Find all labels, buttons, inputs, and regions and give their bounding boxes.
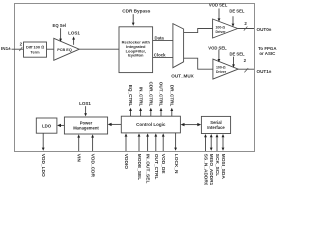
svg-text:SS_N_ADDR0: SS_N_ADDR0 bbox=[203, 154, 209, 185]
OUT_CTRL wire (pin) bbox=[154, 133, 157, 151]
VDD_CDR wire bbox=[91, 134, 94, 151]
diff term block bbox=[24, 42, 47, 57]
PCB EQ amp bbox=[54, 38, 79, 60]
svg-text:MOSI_SDA: MOSI_SDA bbox=[220, 154, 226, 180]
EQ Sel arrow bbox=[59, 28, 62, 42]
svg-text:EQ_CTRL: EQ_CTRL bbox=[128, 85, 133, 107]
svg-text:VDD_LDO: VDD_LDO bbox=[40, 154, 46, 177]
svg-text:Control Logic: Control Logic bbox=[136, 122, 166, 127]
svg-text:Clock: Clock bbox=[154, 52, 166, 57]
wire mux to driver1 bbox=[184, 58, 213, 69]
svg-text:LOS1: LOS1 bbox=[68, 31, 80, 36]
svg-text:LOS1: LOS1 bbox=[79, 101, 91, 106]
svg-text:SCK_SCL: SCK_SCL bbox=[214, 154, 220, 176]
IN_OUT_SEL wire bbox=[146, 133, 149, 151]
reclocker block bbox=[119, 27, 153, 73]
svg-text:DE SEL: DE SEL bbox=[229, 9, 245, 14]
wire eq to reclocker bbox=[79, 48, 119, 50]
driver 0 (OUT0) bbox=[213, 19, 238, 38]
svg-text:MODE_SEL: MODE_SEL bbox=[136, 154, 142, 180]
power management block bbox=[64, 117, 107, 134]
wire out1 bbox=[238, 68, 254, 70]
svg-text:OUT_CTRL: OUT_CTRL bbox=[153, 154, 159, 180]
svg-text:VDDIO: VDDIO bbox=[123, 154, 129, 169]
svg-text:VIN: VIN bbox=[76, 154, 82, 163]
svg-text:IN_OUT_SEL: IN_OUT_SEL bbox=[145, 154, 151, 184]
svg-text:LOCK_N: LOCK_N bbox=[173, 154, 179, 174]
svg-text:EQ Sel: EQ Sel bbox=[53, 23, 67, 28]
SCK_SCL wire bbox=[216, 134, 219, 151]
out mux bbox=[173, 24, 184, 68]
svg-text:Interface: Interface bbox=[207, 125, 225, 130]
svg-text:Term: Term bbox=[30, 49, 40, 54]
svg-text:OUT_CTRL: OUT_CTRL bbox=[159, 82, 164, 107]
outer border bbox=[15, 4, 255, 152]
MODE_SEL wire bbox=[138, 133, 141, 151]
svg-text:VOD_DE: VOD_DE bbox=[160, 154, 166, 175]
LOS1 arrow at eq bbox=[72, 36, 75, 44]
wire mux to driver0 bbox=[184, 29, 213, 33]
svg-text:CDR Bypass: CDR Bypass bbox=[122, 9, 151, 14]
svg-text:OUT_MUX: OUT_MUX bbox=[171, 73, 194, 78]
svg-text:VDD_CDR: VDD_CDR bbox=[90, 154, 96, 178]
VIN wire bbox=[77, 134, 80, 151]
arrow control logic to pm bbox=[108, 123, 122, 126]
LDO block bbox=[36, 118, 57, 133]
IN_CTRL arrow bbox=[139, 108, 142, 116]
svg-text:LDO: LDO bbox=[42, 123, 52, 128]
svg-text:MISO_ADDR1: MISO_ADDR1 bbox=[208, 154, 214, 185]
driver 1 (OUT1) bbox=[213, 59, 238, 79]
data wire bbox=[153, 39, 173, 41]
wire out0 bbox=[238, 28, 254, 30]
svg-text:DR_CTRL: DR_CTRL bbox=[170, 85, 175, 107]
DR_CTRL arrow bbox=[170, 108, 173, 116]
VDD_LDO wire bbox=[42, 133, 45, 151]
svg-text:Data: Data bbox=[155, 35, 165, 40]
bus slash out0 bbox=[244, 27, 248, 31]
bidir arrow control logic to serial interface bbox=[181, 123, 202, 126]
LOS1 arrow into pm bbox=[84, 106, 87, 116]
svg-text:Driver: Driver bbox=[216, 70, 227, 74]
OUT_CTRL arrow bbox=[160, 108, 163, 116]
VOD_DE wire bbox=[162, 133, 165, 151]
SS_N_ADDR0 wire bbox=[204, 134, 207, 151]
wire input bbox=[12, 48, 24, 50]
VOD SEL arrow driver0 bbox=[218, 9, 221, 22]
svg-text:IN1±: IN1± bbox=[1, 46, 11, 51]
svg-text:VOD SEL: VOD SEL bbox=[209, 3, 228, 8]
svg-text:IN_CTRL: IN_CTRL bbox=[138, 87, 143, 107]
svg-text:OUT1±: OUT1± bbox=[257, 69, 272, 74]
svg-text:100-Ω: 100-Ω bbox=[215, 25, 225, 29]
control logic block bbox=[121, 116, 180, 133]
svg-text:VOD SEL: VOD SEL bbox=[208, 46, 227, 51]
bus slash out1 bbox=[244, 68, 248, 72]
bus slash input bbox=[19, 47, 22, 51]
LOCK_N wire bbox=[174, 133, 177, 151]
svg-text:or ASIC: or ASIC bbox=[259, 51, 276, 56]
DE SEL arrow driver1 bbox=[232, 57, 235, 68]
svg-text:PCB EQ: PCB EQ bbox=[57, 48, 72, 52]
VDDIO wire bbox=[125, 133, 128, 151]
svg-text:OUT0±: OUT0± bbox=[257, 27, 272, 32]
svg-text:Management: Management bbox=[73, 126, 99, 131]
svg-text:EyeMon: EyeMon bbox=[128, 53, 144, 58]
EQ_CTRL arrow bbox=[129, 108, 132, 116]
CDR Bypass arrow bbox=[132, 14, 135, 26]
svg-text:DE SEL: DE SEL bbox=[229, 52, 245, 57]
DE SEL arrow driver0 bbox=[232, 16, 235, 27]
serial interface block bbox=[201, 116, 230, 133]
MISO_ADDR1 wire (bidir) bbox=[210, 134, 213, 151]
VOD SEL arrow driver1 bbox=[218, 50, 221, 63]
MOSI_SDA wire (bidir) bbox=[222, 134, 225, 151]
CDR_CTRL arrow bbox=[149, 108, 152, 116]
svg-text:CDR_CTRL: CDR_CTRL bbox=[149, 82, 154, 107]
clock wire bbox=[153, 56, 173, 58]
wire term to eq bbox=[47, 48, 54, 50]
arrow pm to ldo bbox=[57, 124, 64, 127]
svg-text:Driver: Driver bbox=[216, 30, 227, 34]
svg-text:100-Ω: 100-Ω bbox=[216, 66, 226, 70]
To FPGA or ASIC label bbox=[258, 46, 277, 56]
